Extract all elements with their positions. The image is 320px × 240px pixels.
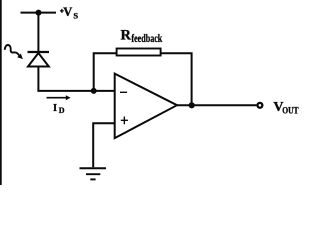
svg-text:V: V bbox=[63, 5, 72, 19]
svg-text:S: S bbox=[73, 11, 78, 21]
svg-text:R: R bbox=[121, 27, 132, 43]
svg-text:OUT: OUT bbox=[282, 106, 299, 116]
svg-text:feedback: feedback bbox=[131, 31, 162, 45]
svg-text:D: D bbox=[59, 106, 65, 115]
svg-text:I: I bbox=[53, 103, 57, 114]
